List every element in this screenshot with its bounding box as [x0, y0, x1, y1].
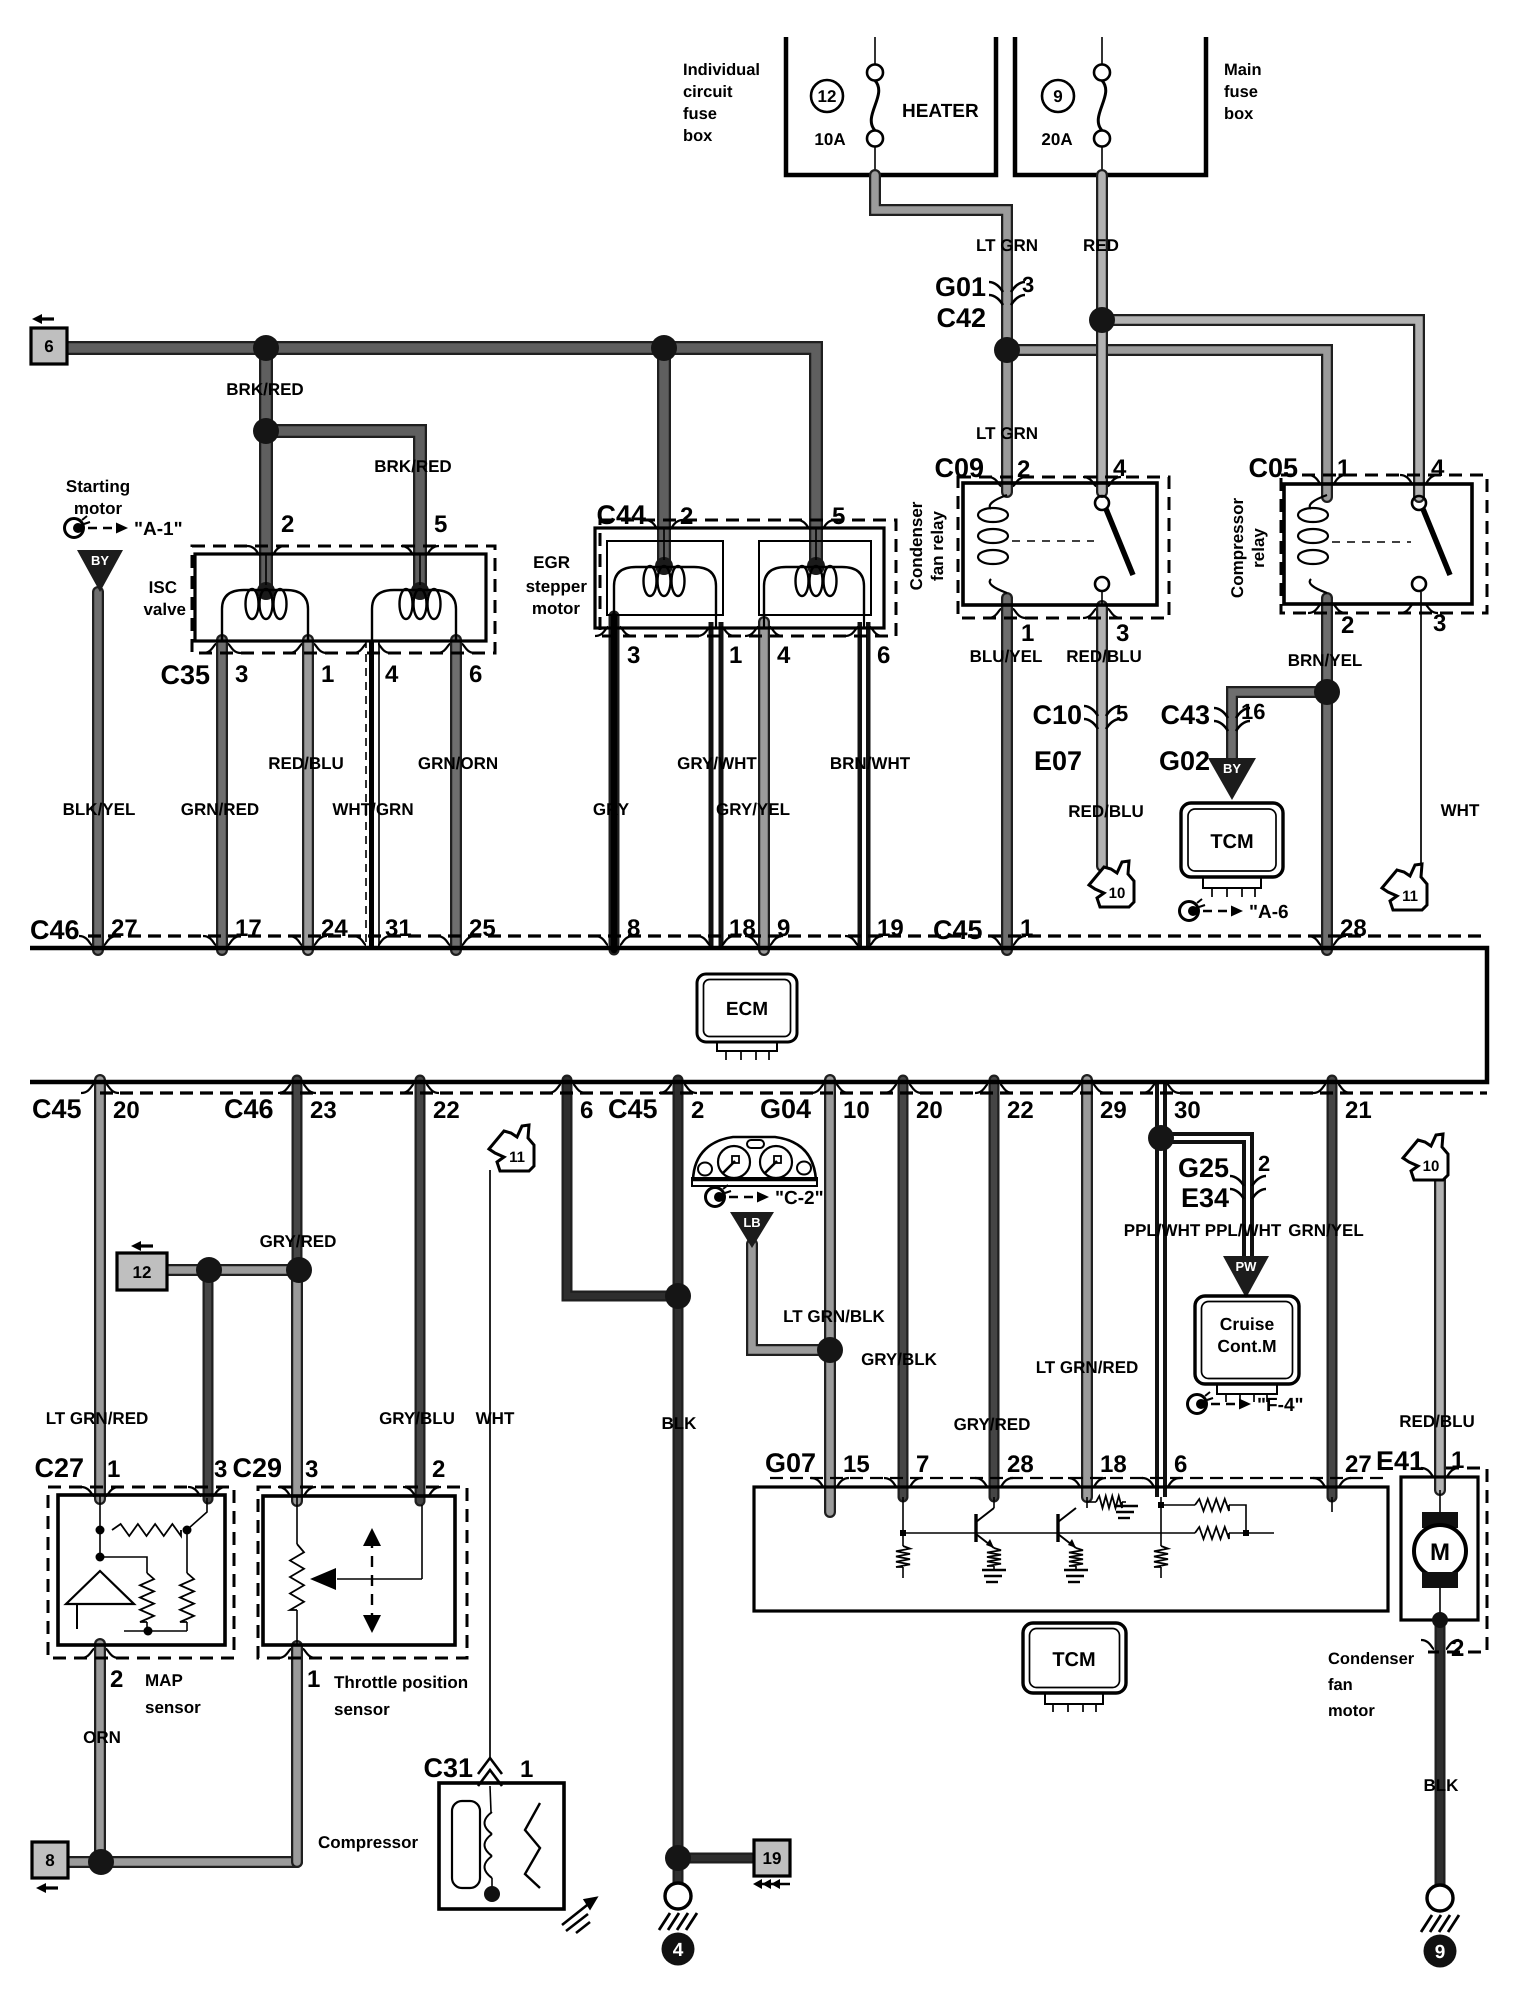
svg-text:box: box [1224, 105, 1254, 123]
svg-text:C46: C46 [224, 1094, 274, 1124]
svg-text:31: 31 [385, 915, 412, 942]
svg-text:E34: E34 [1181, 1183, 1229, 1213]
svg-text:BLK: BLK [662, 1414, 698, 1433]
svg-text:3: 3 [1433, 610, 1446, 637]
svg-text:GRN/ORN: GRN/ORN [418, 754, 498, 773]
svg-text:9: 9 [1435, 1942, 1446, 1963]
svg-text:3: 3 [235, 661, 248, 688]
svg-text:22: 22 [433, 1097, 460, 1124]
svg-text:BRN/WHT: BRN/WHT [830, 754, 911, 773]
svg-text:4: 4 [385, 661, 399, 688]
svg-text:ISC: ISC [149, 578, 177, 597]
svg-text:C31: C31 [423, 1753, 473, 1783]
svg-text:Condenser: Condenser [1328, 1650, 1415, 1668]
svg-text:3: 3 [1116, 620, 1129, 647]
svg-text:relay: relay [1249, 528, 1268, 568]
svg-text:15: 15 [843, 1451, 870, 1478]
svg-text:C44: C44 [596, 500, 646, 530]
svg-text:LT GRN/BLK: LT GRN/BLK [783, 1307, 885, 1326]
svg-text:1: 1 [107, 1456, 120, 1483]
svg-text:GRY/RED: GRY/RED [954, 1415, 1031, 1434]
svg-text:MAP: MAP [145, 1671, 183, 1690]
svg-text:2: 2 [1341, 612, 1354, 639]
svg-text:WHT: WHT [1441, 801, 1480, 820]
svg-text:1: 1 [1337, 455, 1350, 482]
svg-text:25: 25 [469, 915, 496, 942]
svg-text:10A: 10A [814, 130, 845, 149]
svg-text:RED: RED [1083, 236, 1119, 255]
svg-text:27: 27 [1345, 1451, 1372, 1478]
svg-text:5: 5 [832, 503, 845, 530]
svg-text:GRY/BLU: GRY/BLU [379, 1409, 455, 1428]
svg-text:BRK/RED: BRK/RED [226, 380, 303, 399]
svg-text:RED/BLU: RED/BLU [1066, 647, 1142, 666]
svg-text:28: 28 [1340, 915, 1367, 942]
svg-text:2: 2 [281, 511, 294, 538]
svg-text:"F-4": "F-4" [1257, 1395, 1304, 1416]
svg-text:C05: C05 [1248, 453, 1298, 483]
svg-text:HEATER: HEATER [902, 101, 979, 122]
svg-text:29: 29 [1100, 1097, 1127, 1124]
svg-text:C29: C29 [232, 1453, 282, 1483]
svg-text:LT GRN/RED: LT GRN/RED [1036, 1358, 1139, 1377]
svg-text:2: 2 [680, 503, 693, 530]
svg-text:LT GRN/RED: LT GRN/RED [46, 1409, 149, 1428]
svg-text:PW: PW [1236, 1259, 1258, 1274]
svg-text:2: 2 [1258, 1151, 1270, 1176]
svg-text:"C-2": "C-2" [775, 1188, 824, 1209]
svg-text:8: 8 [627, 915, 640, 942]
svg-text:PPL/WHT: PPL/WHT [1124, 1221, 1201, 1240]
svg-text:6: 6 [469, 661, 482, 688]
svg-text:BY: BY [91, 553, 109, 568]
svg-text:C35: C35 [160, 660, 210, 690]
svg-text:1: 1 [520, 1756, 533, 1783]
svg-text:10: 10 [843, 1097, 870, 1124]
svg-text:G02: G02 [1159, 746, 1210, 776]
svg-text:BLK/YEL: BLK/YEL [63, 800, 136, 819]
svg-text:GRN/RED: GRN/RED [181, 800, 259, 819]
svg-text:motor: motor [74, 499, 123, 518]
svg-text:2: 2 [1017, 456, 1030, 483]
svg-text:C43: C43 [1160, 700, 1210, 730]
svg-text:7: 7 [916, 1451, 929, 1478]
svg-text:17: 17 [235, 915, 262, 942]
svg-text:22: 22 [1007, 1097, 1034, 1124]
svg-text:circuit: circuit [683, 83, 733, 101]
svg-text:C10: C10 [1032, 700, 1082, 730]
svg-text:C45: C45 [32, 1094, 82, 1124]
svg-text:sensor: sensor [334, 1700, 390, 1719]
svg-text:C27: C27 [34, 1453, 84, 1483]
svg-text:18: 18 [1100, 1451, 1127, 1478]
svg-text:3: 3 [1022, 272, 1034, 297]
svg-text:4: 4 [1113, 455, 1127, 482]
svg-text:WHT: WHT [476, 1409, 515, 1428]
svg-text:"A-6: "A-6 [1249, 902, 1289, 923]
svg-text:6: 6 [1174, 1451, 1187, 1478]
svg-text:ECM: ECM [726, 999, 768, 1020]
svg-text:GRY/RED: GRY/RED [260, 1232, 337, 1251]
svg-text:Throttle position: Throttle position [334, 1673, 468, 1692]
svg-text:2: 2 [1451, 1635, 1464, 1662]
svg-text:BY: BY [1223, 761, 1241, 776]
svg-text:Starting: Starting [66, 477, 130, 496]
svg-text:M: M [1430, 1539, 1450, 1566]
svg-text:GRY/YEL: GRY/YEL [716, 800, 790, 819]
svg-text:G25: G25 [1178, 1153, 1229, 1183]
svg-text:10: 10 [1109, 885, 1126, 902]
svg-text:GRN/YEL: GRN/YEL [1288, 1221, 1364, 1240]
svg-text:20A: 20A [1041, 130, 1072, 149]
svg-text:2: 2 [110, 1666, 123, 1693]
svg-text:sensor: sensor [145, 1698, 201, 1717]
svg-text:12: 12 [133, 1263, 152, 1282]
svg-text:LT GRN: LT GRN [976, 424, 1038, 443]
svg-text:G07: G07 [765, 1448, 816, 1478]
svg-text:BRN/YEL: BRN/YEL [1288, 651, 1363, 670]
svg-text:1: 1 [1020, 915, 1033, 942]
svg-text:Cont.M: Cont.M [1217, 1336, 1276, 1356]
svg-text:valve: valve [143, 600, 186, 619]
svg-text:Main: Main [1224, 61, 1262, 79]
svg-text:Compressor: Compressor [1228, 498, 1247, 599]
svg-text:C46: C46 [30, 915, 80, 945]
svg-text:3: 3 [214, 1456, 227, 1483]
svg-text:19: 19 [877, 915, 904, 942]
svg-text:5: 5 [434, 511, 447, 538]
svg-text:21: 21 [1345, 1097, 1372, 1124]
svg-text:Cruise: Cruise [1220, 1314, 1275, 1334]
svg-text:stepper: stepper [526, 577, 588, 596]
svg-text:E41: E41 [1376, 1446, 1424, 1476]
svg-text:fuse: fuse [1224, 83, 1258, 101]
svg-text:fan relay: fan relay [928, 510, 947, 580]
svg-text:2: 2 [432, 1456, 445, 1483]
svg-text:1: 1 [1451, 1447, 1464, 1474]
svg-text:motor: motor [1328, 1702, 1375, 1720]
svg-text:23: 23 [310, 1097, 337, 1124]
svg-text:12: 12 [818, 87, 837, 106]
svg-text:20: 20 [916, 1097, 943, 1124]
svg-text:1: 1 [729, 642, 742, 669]
svg-text:G01: G01 [935, 272, 986, 302]
svg-text:C45: C45 [933, 915, 983, 945]
svg-text:8: 8 [45, 1851, 54, 1870]
svg-text:fuse: fuse [683, 105, 717, 123]
svg-text:10: 10 [1423, 1158, 1440, 1175]
svg-text:PPL/WHT: PPL/WHT [1205, 1221, 1282, 1240]
svg-text:20: 20 [113, 1097, 140, 1124]
svg-text:11: 11 [1402, 888, 1418, 905]
svg-text:3: 3 [305, 1456, 318, 1483]
svg-text:28: 28 [1007, 1451, 1034, 1478]
svg-text:WHT/GRN: WHT/GRN [332, 800, 413, 819]
svg-text:C09: C09 [934, 453, 984, 483]
svg-text:"A-1": "A-1" [134, 519, 183, 540]
svg-text:9: 9 [777, 915, 790, 942]
svg-text:6: 6 [580, 1097, 593, 1124]
svg-text:3: 3 [627, 642, 640, 669]
svg-text:motor: motor [532, 599, 581, 618]
svg-text:C42: C42 [936, 303, 986, 333]
svg-text:24: 24 [321, 915, 348, 942]
svg-text:fan: fan [1328, 1676, 1353, 1694]
svg-text:BLU/YEL: BLU/YEL [970, 647, 1043, 666]
svg-text:30: 30 [1174, 1097, 1201, 1124]
svg-text:RED/BLU: RED/BLU [268, 754, 344, 773]
svg-text:4: 4 [777, 642, 791, 669]
svg-text:LT GRN: LT GRN [976, 236, 1038, 255]
svg-text:9: 9 [1053, 87, 1062, 106]
svg-text:16: 16 [1241, 699, 1265, 724]
svg-text:E07: E07 [1034, 746, 1082, 776]
svg-text:GRY: GRY [593, 800, 630, 819]
svg-text:GRY/BLK: GRY/BLK [861, 1350, 938, 1369]
svg-text:RED/BLU: RED/BLU [1399, 1412, 1475, 1431]
svg-text:1: 1 [1021, 620, 1034, 647]
svg-text:G04: G04 [760, 1094, 811, 1124]
svg-text:2: 2 [691, 1097, 704, 1124]
svg-text:BRK/RED: BRK/RED [374, 457, 451, 476]
svg-text:4: 4 [673, 1940, 684, 1961]
svg-text:RED/BLU: RED/BLU [1068, 802, 1144, 821]
svg-text:BLK: BLK [1424, 1776, 1460, 1795]
svg-text:Individual: Individual [683, 61, 760, 79]
svg-text:19: 19 [763, 1849, 782, 1868]
svg-text:LB: LB [743, 1215, 760, 1230]
svg-text:6: 6 [877, 642, 890, 669]
svg-text:box: box [683, 127, 713, 145]
svg-text:11: 11 [509, 1149, 525, 1166]
svg-text:GRY/WHT: GRY/WHT [677, 754, 757, 773]
svg-text:Condenser: Condenser [907, 501, 926, 590]
svg-text:1: 1 [321, 661, 334, 688]
svg-text:EGR: EGR [533, 553, 570, 572]
svg-text:4: 4 [1431, 455, 1445, 482]
svg-text:5: 5 [1116, 701, 1128, 726]
svg-text:C45: C45 [608, 1094, 658, 1124]
svg-text:6: 6 [44, 337, 53, 356]
svg-text:TCM: TCM [1210, 831, 1253, 853]
svg-text:ORN: ORN [83, 1728, 121, 1747]
svg-text:1: 1 [307, 1666, 320, 1693]
svg-text:Compressor: Compressor [318, 1833, 419, 1852]
svg-text:27: 27 [111, 915, 138, 942]
svg-text:TCM: TCM [1052, 1649, 1095, 1671]
